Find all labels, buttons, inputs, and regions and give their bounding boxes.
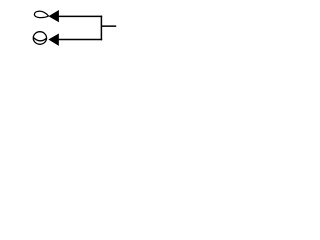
wire vertical join [100,16,102,41]
arrow into microphone [48,34,59,46]
wire bottom [58,39,102,41]
wire output stub [101,25,116,27]
arrow into earpiece [48,10,58,22]
earpiece (speaker) symbol [34,11,48,17]
microphone symbol [33,32,47,45]
wire top [59,15,103,17]
